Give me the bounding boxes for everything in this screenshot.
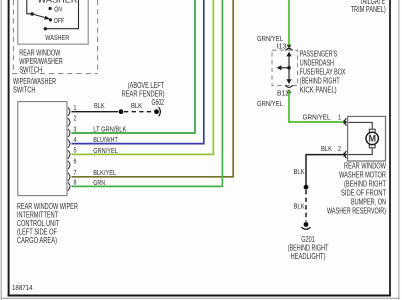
svg-text:M: M — [368, 134, 376, 144]
fuse tap arrow left — [281, 67, 290, 69]
pin7 BLK/YEL wire — [72, 0, 234, 177]
ON contact — [49, 7, 52, 10]
svg-text:ON: ON — [54, 5, 62, 14]
pin8 GRN wire — [72, 0, 223, 186]
fuse feed GRN/YEL vertical upper — [288, 0, 290, 47]
svg-text:5: 5 — [74, 146, 77, 155]
motor internal wiring — [349, 122, 373, 129]
svg-text:I13: I13 — [277, 41, 287, 50]
pin4 BLU/WHT wire — [72, 0, 204, 144]
svg-text:BUMPER, ON: BUMPER, ON — [351, 198, 386, 207]
washer contact wire — [45, 0, 78, 29]
motor pin2 arrow — [344, 152, 348, 156]
svg-text:BLK: BLK — [294, 167, 305, 176]
svg-text:BLK: BLK — [94, 101, 105, 110]
svg-text:BLK/YEL: BLK/YEL — [93, 168, 116, 177]
svg-text:(BEHIND RIGHT: (BEHIND RIGHT — [344, 180, 386, 189]
motor pin1 connector arc — [345, 118, 347, 125]
junction dot — [304, 185, 309, 190]
svg-text:GRN/YEL: GRN/YEL — [93, 146, 118, 155]
svg-text:BLK: BLK — [131, 101, 142, 110]
svg-text:2: 2 — [338, 144, 341, 153]
pin connector arcs — [68, 108, 70, 191]
svg-text:KICK PANEL): KICK PANEL) — [300, 85, 337, 94]
BLK wire motor to ground — [306, 155, 344, 185]
fuse internal arrows — [288, 55, 290, 81]
svg-text:LT GRN/BLK: LT GRN/BLK — [93, 124, 126, 133]
svg-text:SIDE OF FRONT: SIDE OF FRONT — [341, 189, 386, 198]
ground G602 — [154, 109, 159, 114]
wire end arrow into I13 — [287, 45, 292, 49]
svg-text:BLK: BLK — [294, 202, 305, 211]
dashed BLK to G201 — [305, 190, 307, 222]
switch arm to OFF — [32, 14, 44, 17]
svg-text:GRN/YEL: GRN/YEL — [303, 112, 331, 121]
svg-text:UNDERDASH: UNDERDASH — [300, 59, 334, 68]
svg-text:BLK: BLK — [321, 144, 332, 153]
control unit box — [18, 102, 67, 196]
svg-text:G602: G602 — [152, 98, 165, 107]
svg-text:2: 2 — [74, 114, 77, 123]
motor pin1 arrow — [344, 120, 348, 124]
svg-text:GRN: GRN — [93, 178, 105, 187]
svg-text:8: 8 — [74, 178, 77, 187]
B12 connector arc — [285, 85, 292, 87]
svg-text:1: 1 — [338, 112, 341, 121]
svg-text:HEADLIGHT): HEADLIGHT) — [291, 252, 326, 261]
svg-text:WASHER RESERVOIR): WASHER RESERVOIR) — [327, 207, 386, 216]
svg-text:3: 3 — [74, 124, 77, 133]
I13 connector arc — [285, 48, 292, 50]
switch pivot contact — [31, 12, 34, 15]
fuse output GRN/YEL wire to motor — [289, 91, 344, 122]
svg-text:WASHER: WASHER — [45, 33, 69, 42]
switch wire left stub — [27, 0, 32, 14]
svg-text:CARGO AREA): CARGO AREA) — [17, 236, 57, 245]
WASHER contact — [44, 27, 47, 30]
svg-text:REAR WINDOW: REAR WINDOW — [344, 162, 386, 171]
dashed BLK to ground — [124, 111, 154, 113]
svg-text:FUSE/RELAY BOX: FUSE/RELAY BOX — [300, 68, 346, 77]
pin numbers — [74, 103, 77, 187]
svg-text:7: 7 — [74, 168, 77, 177]
svg-text:WASHER MOTOR: WASHER MOTOR — [339, 171, 386, 180]
wire end arrow out of B12 — [287, 89, 292, 93]
svg-text:(BEHIND RIGHT: (BEHIND RIGHT — [300, 77, 340, 86]
svg-text:4: 4 — [74, 135, 77, 144]
rear window wiper/washer switch box — [18, 0, 88, 44]
pin5 GRN/YEL wire — [72, 0, 214, 154]
svg-text:PASSENGER'S: PASSENGER'S — [300, 50, 338, 59]
ground G201 — [304, 222, 309, 227]
motor pin2 connector arc — [345, 151, 347, 158]
svg-text:188714: 188714 — [12, 283, 33, 292]
OFF contact — [49, 18, 52, 21]
svg-text:BLU/WHT: BLU/WHT — [93, 135, 118, 144]
fuse/relay dashed box — [272, 50, 298, 85]
junction dot — [119, 109, 124, 114]
svg-text:GRN/YEL: GRN/YEL — [257, 99, 283, 108]
rear window washer motor box — [348, 116, 386, 161]
svg-text:1: 1 — [74, 103, 77, 112]
dashed box wiper/washer switch — [12, 0, 98, 74]
svg-text:TRIM PANEL): TRIM PANEL) — [351, 5, 386, 14]
pin1 BLK wire — [72, 111, 119, 113]
svg-text:SWITCH: SWITCH — [19, 66, 42, 75]
motor M symbol — [369, 129, 375, 132]
svg-text:OFF: OFF — [54, 16, 65, 25]
svg-text:6: 6 — [74, 156, 77, 165]
pin3 LT GRN/BLK wire — [72, 0, 196, 133]
svg-text:SWITCH: SWITCH — [13, 86, 36, 95]
